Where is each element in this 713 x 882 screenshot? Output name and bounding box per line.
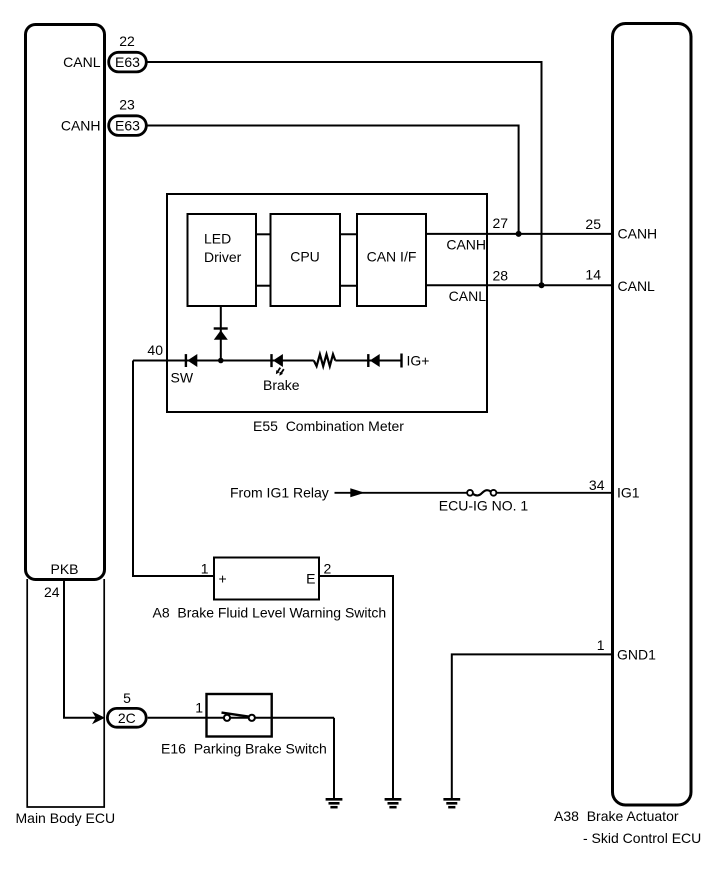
pin 24 label <box>44 584 60 600</box>
label Brake <box>263 377 300 393</box>
Main Body ECU lower outline <box>27 579 104 807</box>
pin 1 label (E16) <box>195 700 203 716</box>
svg-text:E63: E63 <box>115 54 140 70</box>
svg-text:A38 Brake Actuator: A38 Brake Actuator <box>554 808 679 824</box>
terminal bar IG+ <box>400 354 402 368</box>
connector A38 box <box>613 24 692 806</box>
svg-text:A8 Brake Fluid Level Warning: A8 Brake Fluid Level Warning Switch <box>153 605 387 621</box>
net label CANH (A38 side) <box>618 226 658 242</box>
lamp line wire (right part) <box>335 360 401 362</box>
svg-text:IG1: IG1 <box>617 485 640 501</box>
svg-text:Brake: Brake <box>263 377 300 393</box>
pin 22 label <box>119 33 135 49</box>
pin 23 label <box>119 96 135 112</box>
net label CANL (meter side) <box>449 288 487 304</box>
svg-text:25: 25 <box>585 216 601 232</box>
svg-text:CANH: CANH <box>446 237 486 253</box>
svg-text:ECU-IG NO. 1: ECU-IG NO. 1 <box>439 498 529 514</box>
connector 2C <box>107 708 146 727</box>
junction node CANH <box>516 231 522 237</box>
wire 2C to E16 pin 1 <box>148 717 207 719</box>
svg-text:CANL: CANL <box>449 288 487 304</box>
net label IG1 <box>617 485 640 501</box>
svg-text:24: 24 <box>44 584 60 600</box>
ground (A8) <box>385 799 402 807</box>
wire CANL from CAN I/F to A38 pin 14 <box>426 284 611 286</box>
svg-text:34: 34 <box>589 477 605 493</box>
svg-text:CANH: CANH <box>618 226 658 242</box>
label SW <box>171 369 194 385</box>
wire A8 pin 2 to ground <box>319 576 393 798</box>
label From IG1 Relay <box>230 485 329 501</box>
wire PKB pin 24 to 2C <box>64 581 97 718</box>
net label CANL (A38 side) <box>618 278 656 294</box>
combination meter E55 box <box>167 194 487 412</box>
svg-text:- Skid Control ECU: - Skid Control ECU <box>583 830 701 846</box>
label Skid Control ECU <box>583 830 701 846</box>
svg-text:E16 Parking Brake Switch: E16 Parking Brake Switch <box>161 741 327 757</box>
arrow on IG1 feed <box>350 488 364 497</box>
wire CANL from E63-22 to CANL node <box>148 62 542 285</box>
net label CANH (left) <box>61 117 101 133</box>
switch contacts E16 <box>222 713 255 721</box>
svg-text:From IG1 Relay: From IG1 Relay <box>230 485 329 501</box>
svg-text:CANH: CANH <box>61 117 101 133</box>
pin 1 label (A8) <box>201 561 209 577</box>
svg-text:5: 5 <box>123 690 131 706</box>
pin 28 label <box>493 267 509 283</box>
wire through E16 <box>207 717 335 719</box>
label A38 Brake Actuator <box>554 808 679 824</box>
svg-text:14: 14 <box>585 267 601 283</box>
svg-text:CANL: CANL <box>63 54 101 70</box>
pin 14 label <box>585 267 601 283</box>
fuse ECU-IG NO. 1 <box>467 490 496 496</box>
diode SW (pointing left) <box>186 354 197 367</box>
net label CANL (left) <box>63 54 101 70</box>
switch A8 Brake Fluid Level Warning Switch box <box>214 558 319 600</box>
svg-text:2: 2 <box>324 561 332 577</box>
wire GND1 to ground <box>452 654 611 798</box>
pin 34 label <box>589 477 605 493</box>
ground (GND1) <box>443 799 460 807</box>
wire LED Driver to CPU lower <box>256 285 271 287</box>
diode IG+ (pointing left) <box>368 354 379 367</box>
connector E63 pin 23 <box>109 116 147 136</box>
svg-text:1: 1 <box>195 700 203 716</box>
pin 1 label (GND1) <box>597 637 605 653</box>
svg-text:Driver: Driver <box>204 249 242 265</box>
svg-text:CPU: CPU <box>290 249 320 265</box>
svg-text:E: E <box>306 571 315 587</box>
svg-text:E63: E63 <box>115 118 140 134</box>
svg-text:23: 23 <box>119 96 135 112</box>
pin 2 label (A8) <box>324 561 332 577</box>
resistor (zigzag) <box>314 354 336 366</box>
diode D1 (below LED Driver, pointing up) <box>214 329 228 340</box>
wire fuse to A38 pin 34 <box>496 492 611 494</box>
wire pin 40 to A8 switch pin 1 <box>133 361 214 577</box>
wire LED Driver to CPU upper <box>256 233 271 235</box>
svg-text:E55 Combination Meter: E55 Combination Meter <box>253 418 404 434</box>
switch E16 Parking Brake Switch box <box>207 694 272 737</box>
svg-text:28: 28 <box>493 267 509 283</box>
label Main Body ECU <box>16 810 116 826</box>
svg-text:40: 40 <box>147 342 163 358</box>
ground (E16) <box>326 799 343 807</box>
label A8 Brake Fluid Level Warning Switch <box>153 605 387 621</box>
arrow into 2C <box>92 711 105 724</box>
wire CANH from E63-23 to CANH node <box>148 126 519 234</box>
svg-text:SW: SW <box>171 369 194 385</box>
block CPU <box>271 214 341 306</box>
LED Brake (pointing left with emission arrows) <box>272 354 284 376</box>
svg-text:22: 22 <box>119 33 135 49</box>
wire E16 to ground <box>333 718 335 798</box>
wire CPU to CAN I/F lower <box>340 285 357 287</box>
label E55 Combination Meter <box>253 418 404 434</box>
connector shell Main Body ECU <box>26 25 105 580</box>
connector E63 pin 22 <box>109 52 147 72</box>
junction node CANL <box>539 282 545 288</box>
svg-text:PKB: PKB <box>51 561 79 577</box>
label IG+ <box>407 353 430 369</box>
pin 40 label <box>147 342 163 358</box>
svg-text:CANL: CANL <box>618 278 656 294</box>
junction on lamp line <box>218 358 224 364</box>
pin 27 label <box>493 215 509 231</box>
wire CANH from CAN I/F to A38 pin 25 <box>426 233 611 235</box>
svg-text:27: 27 <box>493 215 509 231</box>
svg-text:+: + <box>219 571 227 587</box>
label ECU-IG NO. 1 <box>439 498 529 514</box>
pin 5 label <box>123 690 131 706</box>
svg-text:IG+: IG+ <box>407 353 430 369</box>
net label GND1 <box>617 647 656 663</box>
svg-text:2C: 2C <box>118 710 136 726</box>
block LED Driver <box>188 214 257 306</box>
label E16 Parking Brake Switch <box>161 741 327 757</box>
net label CANH (meter side) <box>446 237 486 253</box>
block CAN I/F <box>357 214 426 306</box>
svg-text:Main Body ECU: Main Body ECU <box>16 810 116 826</box>
svg-text:LED: LED <box>204 231 231 247</box>
lamp line wire (left part) <box>133 360 314 362</box>
svg-text:GND1: GND1 <box>617 647 656 663</box>
svg-text:1: 1 <box>201 561 209 577</box>
svg-text:1: 1 <box>597 637 605 653</box>
pin 25 label <box>585 216 601 232</box>
svg-text:CAN I/F: CAN I/F <box>367 249 417 265</box>
wire LED Driver output down to lamp line <box>220 306 222 361</box>
net label PKB <box>51 561 79 577</box>
wire CPU to CAN I/F upper <box>340 233 357 235</box>
wire IG1 relay feed (left of fuse) <box>335 492 468 494</box>
